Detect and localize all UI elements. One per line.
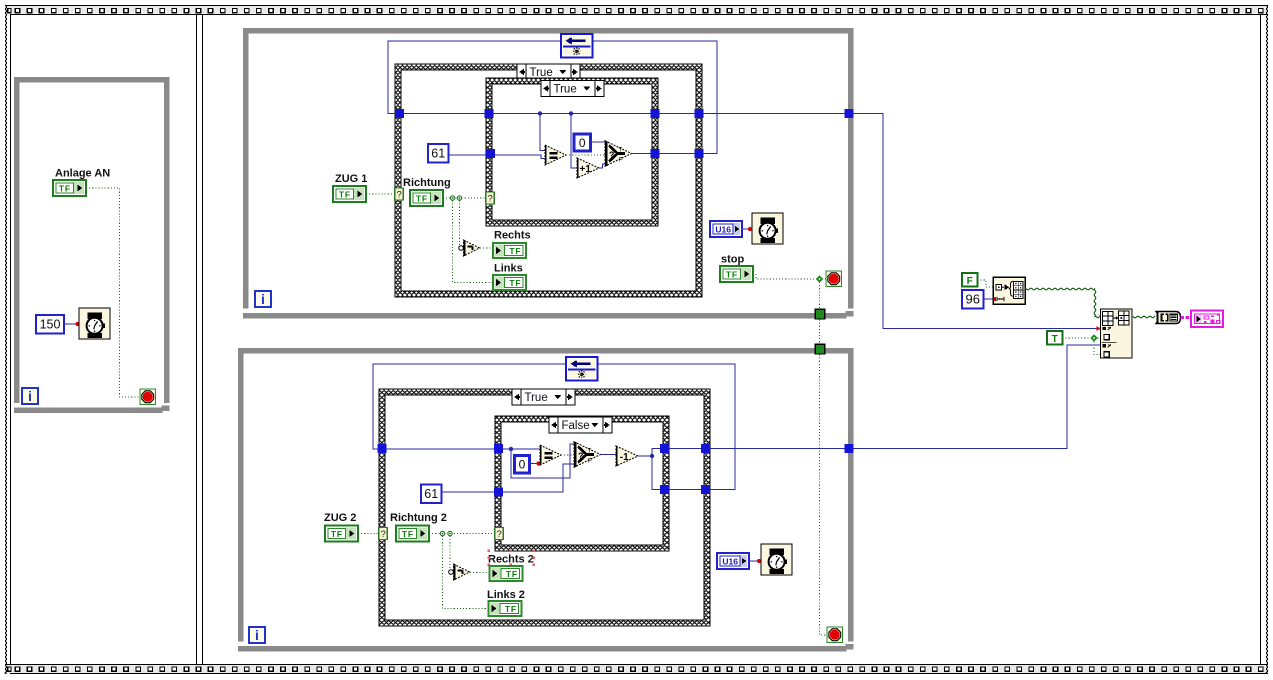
wire main shift line (loop 1) <box>399 113 849 115</box>
svg-text:?: ? <box>609 150 615 160</box>
Wait (ms) timer function (loop 2) <box>761 544 792 575</box>
select function (loop 2) <box>574 442 601 467</box>
boolean indicator Links <box>493 275 526 290</box>
svg-text:-1: -1 <box>620 452 629 463</box>
while loop (frame 1, Anlage AN loop) <box>14 77 170 413</box>
case selector tunnel ? (inner, loop 1) <box>486 192 495 205</box>
boolean control ZUG 2 <box>325 526 358 542</box>
tunnels loop 2 main wire <box>378 444 854 453</box>
wire 0 to select t input <box>591 141 606 143</box>
svg-text:TF: TF <box>505 604 517 614</box>
svg-text:i: i <box>28 388 32 404</box>
NOT gate (loop 1) <box>459 240 480 256</box>
numeric constant 0 (loop 1) <box>574 134 591 151</box>
svg-text:T: T <box>588 448 592 454</box>
svg-text:0: 0 <box>519 458 526 472</box>
svg-text:TF: TF <box>402 529 414 539</box>
case structure 2 inner <box>495 416 669 551</box>
Wait (ms) timer function <box>79 308 110 339</box>
green tunnel on loop 2 top border <box>815 344 825 354</box>
U16 conversion terminal (loop 1) <box>710 221 742 237</box>
wire boolean array Initialize Array to Replace Array Subset (zigzag) <box>1025 288 1100 318</box>
svg-text:TF: TF <box>506 569 518 579</box>
decrement -1 (loop 2) <box>616 446 638 466</box>
wire junction to increment (loop 1) <box>571 114 577 169</box>
svg-text:150: 150 <box>40 318 61 332</box>
svg-text:Rechts: Rechts <box>494 230 531 242</box>
numeric constant 150 <box>36 315 64 334</box>
NOT gate (loop 2) <box>449 564 470 580</box>
wire U16 to Wait ms (loop 2) <box>749 560 761 562</box>
wire +1 to select f input <box>599 164 605 168</box>
while loop 2 (ZUG 2) <box>238 348 854 652</box>
case structure 2 outer <box>379 389 710 626</box>
svg-text:i: i <box>261 291 265 307</box>
loop condition stop terminal (frame 1 loop) <box>140 389 156 405</box>
numeric constant 96 <box>962 290 984 309</box>
svg-text:TF: TF <box>416 193 428 203</box>
boolean indicator Rechts <box>493 243 526 258</box>
svg-text:Richtung: Richtung <box>403 177 451 189</box>
wire U16 to Wait ms (loop 1) <box>742 228 752 230</box>
wire 150 to Wait ms <box>64 323 79 325</box>
svg-text:F: F <box>588 458 592 464</box>
wire equals to select s (dotted, loop 2) <box>561 454 574 456</box>
wire F to Initialize Array (dotted) <box>978 280 994 287</box>
Wait (ms) timer function (loop 1) <box>752 213 783 244</box>
wire T to Replace Array Subset (dotted) <box>1063 337 1091 339</box>
svg-text:i: i <box>255 627 259 643</box>
wire NOT to Rechts (dotted) <box>480 247 493 249</box>
boolean indicator Links 2 <box>489 601 522 616</box>
boolean control Richtung 2 <box>396 526 429 542</box>
tunnels loop 1 main wire <box>395 109 854 118</box>
svg-text:True: True <box>530 67 553 79</box>
wire loop 1 output to Replace Array Subset <box>854 114 1101 329</box>
wire Richtung 2 to inner case tunnel (dotted) <box>429 533 495 535</box>
wire loop 2 output to Replace Array Subset <box>854 345 1101 449</box>
svg-text:T: T <box>619 147 623 153</box>
equals comparator (loop 1) <box>545 145 566 165</box>
svg-text:61: 61 <box>431 147 445 161</box>
wire junction down to NOT gate 2 (dotted) <box>449 536 451 569</box>
tunnel 61 wire inner case 1 <box>486 149 495 158</box>
iteration terminal i (loop 2) <box>249 627 265 643</box>
junction circles on Richtung wire <box>450 196 461 200</box>
wire Anlage AN to stop terminal (dotted green) <box>86 188 140 397</box>
tunnels loop 2 feedback path <box>494 485 710 497</box>
svg-text:F: F <box>619 157 623 163</box>
tunnels loop 1 select output <box>650 149 703 158</box>
svg-text:TF: TF <box>509 278 521 288</box>
wire NOT to Rechts 2 (dotted) <box>470 572 490 574</box>
numeric constant 61 (loop 1) <box>428 144 449 163</box>
loop condition stop terminal (loop 2) <box>827 627 843 643</box>
svg-text:ZUG 2: ZUG 2 <box>324 512 356 524</box>
wire select to decrement (loop 2) <box>601 454 617 456</box>
svg-text:F: F <box>967 276 973 287</box>
svg-text:?: ? <box>496 529 501 540</box>
junction diamond on stop wire <box>816 275 823 282</box>
boolean constant F <box>962 273 978 287</box>
svg-text:61: 61 <box>424 487 438 501</box>
svg-text:TF: TF <box>509 246 521 256</box>
svg-text:TF: TF <box>339 189 351 199</box>
svg-text:U16: U16 <box>715 224 731 234</box>
Replace Array Subset function <box>1101 309 1133 358</box>
boolean control ZUG 1 <box>333 186 366 202</box>
junction circles on Richtung 2 wire <box>440 531 452 535</box>
case selector tunnel ? (inner, loop 2) <box>495 528 504 541</box>
boolean control Richtung <box>410 190 443 206</box>
svg-text:False: False <box>562 420 590 432</box>
boolean control Anlage AN (TF) <box>53 180 86 196</box>
wire junction to equals (loop 1) <box>540 114 545 151</box>
svg-text:stop: stop <box>721 254 745 266</box>
svg-text:96: 96 <box>966 292 980 307</box>
select function (loop 1) <box>605 141 632 166</box>
while loop 1 (ZUG 1) <box>243 28 854 319</box>
svg-text:Links: Links <box>494 263 523 275</box>
svg-text:Links 2: Links 2 <box>487 589 525 601</box>
svg-text:T: T <box>1052 334 1058 345</box>
increment +1 (loop 1) <box>577 158 599 178</box>
wire stop between loops (dotted) <box>819 320 821 345</box>
svg-text:?: ? <box>578 451 584 461</box>
Boolean Array To Number function <box>1156 312 1181 324</box>
feedback node (loop 1) <box>561 34 593 58</box>
case structure 1 inner <box>486 78 658 226</box>
wire junction down to Links 2 (dotted) <box>443 536 490 609</box>
svg-text:U16: U16 <box>722 556 738 566</box>
svg-text:Anlage AN: Anlage AN <box>55 168 110 180</box>
numeric indicator (magenta) <box>1191 311 1223 328</box>
iteration terminal i (loop 1) <box>255 291 271 307</box>
svg-text:0: 0 <box>579 136 586 150</box>
green tunnel on loop 1 bottom border <box>815 309 825 319</box>
wire number to indicator (magenta dashed) <box>1181 316 1192 319</box>
case selector tunnel ? (outer, loop 1) <box>395 188 404 201</box>
svg-text:ZUG 1: ZUG 1 <box>335 173 367 185</box>
svg-text:TF: TF <box>726 269 738 279</box>
feedback node (loop 2) <box>566 357 598 381</box>
boolean constant T <box>1047 331 1063 345</box>
svg-text:?: ? <box>380 529 385 540</box>
boolean control stop <box>720 266 753 282</box>
wire equals to select s input (dotted green) <box>566 154 605 156</box>
svg-text:True: True <box>554 84 577 96</box>
loop condition stop terminal (loop 1) <box>826 271 842 287</box>
equals comparator (loop 2) <box>540 445 561 465</box>
svg-text:+1: +1 <box>579 164 591 175</box>
case structure 1 outer <box>395 64 702 297</box>
wire stop to loop stop terminals (dotted) <box>753 274 816 279</box>
svg-text:Richtung 2: Richtung 2 <box>390 512 447 524</box>
wire Richtung to inner case tunnel (dotted) <box>443 197 486 199</box>
wire select output to feedback node (loop 1) <box>593 41 718 154</box>
Initialize Array function <box>993 277 1025 304</box>
numeric constant 0 (loop 2) <box>515 456 530 474</box>
wire ZUG 1 to case tunnel (dotted) <box>366 193 395 195</box>
U16 conversion terminal (loop 2) <box>717 553 749 569</box>
case selector tunnel ? (outer, loop 2) <box>379 528 388 541</box>
wire 61 to equals <box>449 155 546 159</box>
wire 0 to equals (loop 2) <box>530 463 541 465</box>
junction diamond on T wire <box>1090 334 1097 341</box>
wire feedback node output to main wire (loop 1) <box>388 41 561 114</box>
svg-text:?: ? <box>396 190 401 201</box>
wire loop-back to select t input (loop 2) <box>511 444 574 478</box>
svg-text:TF: TF <box>331 529 343 539</box>
wire stop inside loop 2 (dotted) <box>820 355 828 636</box>
boolean indicator Rechts 2 <box>490 566 523 581</box>
iteration terminal i (frame 1 loop) <box>22 388 38 404</box>
svg-text:TF: TF <box>59 183 71 193</box>
svg-text:?: ? <box>487 194 492 205</box>
numeric constant 61 (loop 2) <box>421 485 442 504</box>
wire 96 to Initialize Array <box>984 298 994 300</box>
wire feedback node output to main wire (loop 2) <box>373 364 566 449</box>
wire junction down to Links (dotted) <box>453 201 494 283</box>
wire junction down to NOT gate (dotted) <box>459 201 461 246</box>
wire ZUG 2 to case tunnel (dotted) <box>358 533 379 535</box>
wire 61 to select f input (loop 2) <box>442 464 575 492</box>
wire main shift line (loop 2) <box>383 448 540 450</box>
wire boolean array to Boolean Array To Number (zigzag) <box>1132 316 1155 318</box>
wire decrement output junction (loop 2) <box>638 449 850 457</box>
svg-text:True: True <box>525 392 548 404</box>
